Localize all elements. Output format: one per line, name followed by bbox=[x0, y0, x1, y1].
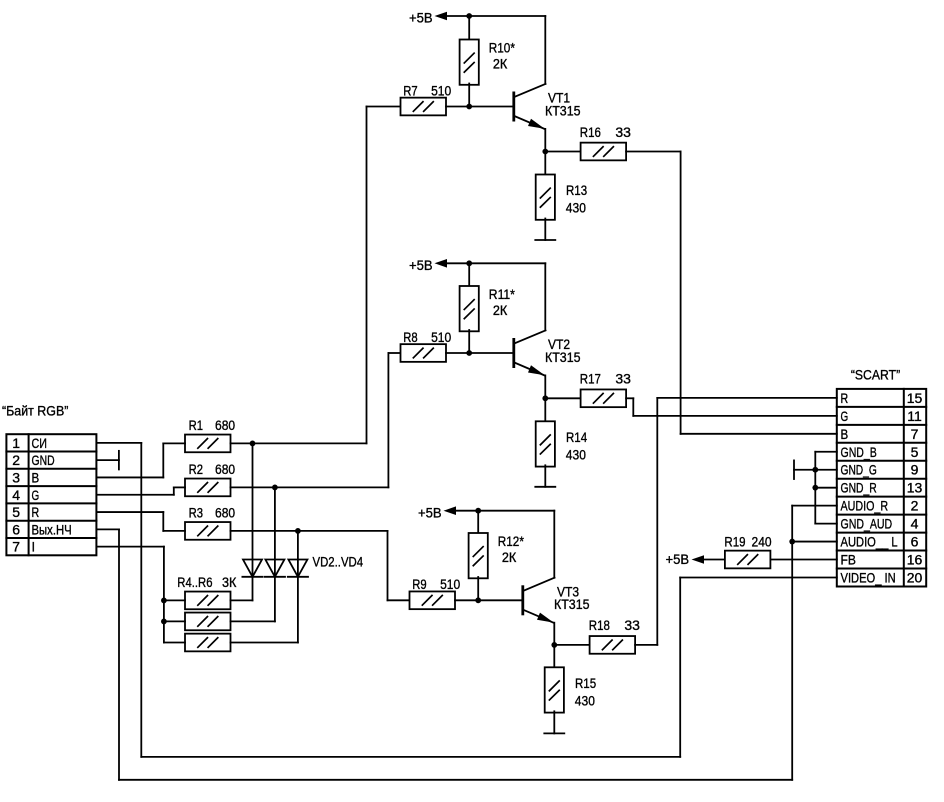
svg-text:GND_G: GND_G bbox=[841, 462, 877, 478]
svg-text:GND_B: GND_B bbox=[841, 444, 877, 460]
wire R1 output to R7 bbox=[231, 107, 401, 444]
svg-text:6: 6 bbox=[911, 534, 919, 550]
wire base of VT1 bbox=[446, 106, 514, 108]
svg-text:13: 13 bbox=[907, 480, 923, 496]
svg-text:7: 7 bbox=[911, 426, 919, 442]
svg-text:R18: R18 bbox=[589, 617, 610, 633]
svg-text:B: B bbox=[32, 469, 40, 485]
svg-text:430: 430 bbox=[566, 200, 586, 216]
transistor VT3 KT315 bbox=[523, 578, 555, 645]
svg-text:Вых.НЧ: Вых.НЧ bbox=[32, 521, 72, 537]
svg-text:GND_AUD: GND_AUD bbox=[841, 516, 893, 532]
svg-text:3: 3 bbox=[12, 469, 20, 485]
resistor R13 bbox=[536, 175, 555, 220]
label R7 510 bbox=[403, 82, 451, 98]
svg-text:11: 11 bbox=[907, 408, 922, 424]
label R15 430 bbox=[575, 675, 596, 709]
label R1 680 bbox=[189, 417, 236, 433]
resistor R19 bbox=[725, 551, 771, 569]
label R12* 2К bbox=[498, 533, 525, 565]
svg-text:33: 33 bbox=[624, 617, 640, 633]
resistor R12 bbox=[469, 533, 488, 578]
wire emitter node to R14 bbox=[544, 398, 546, 421]
svg-text:430: 430 bbox=[566, 446, 586, 462]
svg-text:“SCART”: “SCART” bbox=[851, 367, 901, 383]
wire R2 output to R8 bbox=[231, 353, 401, 487]
wire pin 7 I to R4..R6 bbox=[96, 547, 185, 643]
svg-text:R4..R6: R4..R6 bbox=[177, 574, 212, 590]
wire pin 2 GND bbox=[96, 459, 119, 461]
svg-text:2К: 2К bbox=[502, 549, 517, 565]
junction emitter node VT3 bbox=[551, 642, 557, 648]
resistor R10 bbox=[460, 40, 479, 85]
svg-text:I: I bbox=[32, 539, 36, 555]
wire emitter node to R18 bbox=[554, 644, 589, 646]
resistor R11 bbox=[460, 286, 479, 331]
resistor R15 bbox=[545, 667, 564, 712]
svg-text:R10*: R10* bbox=[489, 40, 516, 56]
junction audio L tap bbox=[789, 539, 795, 545]
junction base node VT2 bbox=[466, 350, 472, 356]
wire emitter node to R13 bbox=[544, 152, 546, 175]
svg-text:R7: R7 bbox=[403, 82, 418, 98]
power +5В (stage 1) bbox=[409, 10, 447, 26]
resistor R9 bbox=[410, 591, 456, 609]
svg-text:КТ315: КТ315 bbox=[554, 596, 590, 612]
svg-text:R: R bbox=[841, 390, 849, 406]
resistor R4 bbox=[185, 592, 231, 610]
diode VD3 bbox=[265, 560, 285, 577]
svg-text:AUDIO_R: AUDIO_R bbox=[841, 498, 889, 514]
svg-text:680: 680 bbox=[215, 417, 235, 433]
svg-text:1: 1 bbox=[12, 435, 20, 451]
resistor R6 bbox=[185, 634, 231, 652]
svg-text:4: 4 bbox=[12, 487, 20, 503]
ground (stage 1) bbox=[535, 239, 555, 241]
label R8 510 bbox=[403, 329, 451, 345]
svg-text:9: 9 bbox=[911, 462, 919, 478]
label R17 33 bbox=[580, 371, 631, 387]
wire pin 5 R to R3 bbox=[96, 512, 185, 531]
svg-text:3К: 3К bbox=[222, 574, 237, 590]
svg-text:AUDIO__ L: AUDIO__ L bbox=[841, 534, 898, 550]
svg-text:+5В: +5В bbox=[409, 10, 433, 26]
svg-text:VD2..VD4: VD2..VD4 bbox=[313, 554, 364, 570]
wire VD4 cathode to R6 bbox=[231, 577, 298, 643]
wire R15 to ground bbox=[553, 711, 555, 733]
svg-text:R3: R3 bbox=[189, 505, 204, 521]
svg-text:FB: FB bbox=[841, 552, 856, 568]
svg-text:5: 5 bbox=[12, 504, 20, 520]
svg-text:240: 240 bbox=[752, 534, 772, 550]
svg-text:680: 680 bbox=[215, 461, 235, 477]
wire R14 to ground bbox=[544, 465, 546, 487]
svg-text:680: 680 bbox=[215, 505, 235, 521]
junction I / R4 bbox=[161, 598, 167, 604]
wire +5В to R11 bbox=[468, 263, 470, 286]
junction node R1/VD2 bbox=[250, 441, 256, 447]
connector X2 "SCART" bbox=[837, 389, 926, 587]
ground terminal pin 2 GND bbox=[118, 451, 120, 470]
resistor R16 bbox=[581, 143, 627, 161]
svg-text:VIDEO_ IN: VIDEO_ IN bbox=[841, 569, 896, 585]
svg-text:КТ315: КТ315 bbox=[545, 102, 581, 118]
wire SCART ground bus bbox=[794, 452, 837, 524]
svg-text:2К: 2К bbox=[493, 56, 508, 72]
wire pin 3 B to R1 bbox=[96, 443, 185, 477]
junction emitter node VT1 bbox=[542, 149, 548, 155]
wire +5В to R10 bbox=[468, 16, 470, 40]
label R18 33 bbox=[589, 617, 640, 633]
svg-text:+5В: +5В bbox=[409, 257, 433, 273]
junction +5В / R11 bbox=[466, 260, 472, 266]
svg-text:R8: R8 bbox=[403, 329, 418, 345]
transistor VT2 KT315 bbox=[514, 330, 546, 398]
label VT1 KT315 bbox=[545, 90, 581, 119]
label R4..R6 3К bbox=[177, 574, 237, 590]
wire R16 to SCART B (pin 7) bbox=[626, 152, 837, 434]
resistor R1 bbox=[185, 435, 231, 453]
svg-text:6: 6 bbox=[12, 521, 20, 537]
wire VD3 anode bbox=[274, 487, 276, 576]
svg-text:G: G bbox=[841, 408, 849, 424]
svg-text:R: R bbox=[32, 504, 40, 520]
junction +5В / R10 bbox=[466, 13, 472, 19]
wire emitter node to R16 bbox=[545, 151, 580, 153]
wire VD2 anode bbox=[252, 443, 254, 576]
label R16 33 bbox=[580, 124, 631, 140]
svg-text:16: 16 bbox=[907, 552, 923, 568]
svg-text:КТ315: КТ315 bbox=[545, 349, 581, 365]
wire R13 to ground bbox=[544, 219, 546, 241]
wire base of VT2 bbox=[446, 352, 514, 354]
junction GND_R bus bbox=[812, 485, 818, 491]
svg-text:2: 2 bbox=[12, 452, 20, 468]
svg-text:R17: R17 bbox=[580, 371, 601, 387]
label R14 430 bbox=[566, 429, 587, 463]
svg-text:R15: R15 bbox=[575, 675, 596, 691]
wire R10 to base node bbox=[468, 84, 470, 107]
svg-text:+5В: +5В bbox=[666, 551, 690, 567]
wire R18 to SCART R (pin 15) bbox=[635, 398, 837, 645]
ground terminal SCART GND_G bbox=[793, 460, 795, 479]
label R11* 2К bbox=[489, 286, 516, 318]
label VT3 KT315 bbox=[554, 583, 590, 612]
svg-text:GND: GND bbox=[32, 452, 55, 468]
svg-text:2: 2 bbox=[911, 498, 919, 514]
svg-text:7: 7 bbox=[12, 539, 20, 555]
svg-text:+5В: +5В bbox=[418, 504, 442, 520]
svg-text:R1: R1 bbox=[189, 417, 204, 433]
label R10* 2К bbox=[489, 40, 516, 72]
wire R17 to SCART G (pin 11) bbox=[626, 398, 837, 416]
resistor R17 bbox=[581, 389, 627, 407]
svg-text:СИ: СИ bbox=[32, 435, 47, 451]
svg-text:15: 15 bbox=[907, 390, 923, 406]
wire VD2 cathode to R4 bbox=[231, 577, 253, 601]
svg-text:R11*: R11* bbox=[489, 286, 516, 302]
junction GND_G bus bbox=[812, 467, 818, 473]
svg-text:G: G bbox=[32, 487, 40, 503]
svg-text:R16: R16 bbox=[580, 124, 601, 140]
label R3 680 bbox=[189, 505, 236, 521]
junction +5В / R12 bbox=[475, 508, 481, 514]
svg-text:430: 430 bbox=[575, 692, 595, 708]
wire AUDIO L tap bbox=[792, 541, 837, 543]
diode VD4 bbox=[288, 560, 308, 577]
label R13 430 bbox=[566, 182, 587, 216]
junction base node VT3 bbox=[475, 597, 481, 603]
power +5В (R19) bbox=[666, 551, 705, 567]
wire pin 6 Вых.НЧ to audio bus bbox=[96, 506, 836, 780]
wire base of VT3 bbox=[455, 599, 523, 601]
ground (stage 2) bbox=[535, 486, 555, 488]
ground (stage 3) bbox=[544, 732, 564, 734]
label R19 240 bbox=[724, 534, 771, 550]
resistor R14 bbox=[536, 421, 555, 466]
junction base node VT1 bbox=[466, 104, 472, 110]
junction node R3/VD4 bbox=[295, 528, 301, 534]
svg-text:33: 33 bbox=[615, 371, 631, 387]
svg-text:510: 510 bbox=[431, 329, 451, 345]
svg-text:5: 5 bbox=[911, 444, 919, 460]
wire +5В rail (stage 1) bbox=[447, 16, 545, 84]
wire pin 4 G to R2 bbox=[96, 487, 185, 494]
wire R19 to SCART FB (pin 16) bbox=[770, 559, 836, 561]
wire pin 1 СИ to VIDEO_IN bus bbox=[96, 443, 836, 757]
wire +5В rail (stage 3) bbox=[456, 511, 554, 578]
svg-text:R2: R2 bbox=[189, 461, 204, 477]
svg-text:R12*: R12* bbox=[498, 533, 525, 549]
power +5В (stage 3) bbox=[418, 504, 456, 520]
label VT2 KT315 bbox=[545, 336, 581, 365]
svg-text:4: 4 bbox=[911, 516, 919, 532]
resistor R5 bbox=[185, 613, 231, 631]
junction node R2/VD3 bbox=[272, 485, 278, 491]
svg-text:R9: R9 bbox=[412, 576, 427, 592]
wire R11 to base node bbox=[468, 330, 470, 353]
wire +5В rail (stage 2) bbox=[447, 263, 545, 330]
svg-text:R14: R14 bbox=[566, 429, 587, 445]
wire emitter node to R17 bbox=[545, 397, 580, 399]
transistor VT1 KT315 bbox=[514, 84, 546, 152]
wire R3 output to R9 bbox=[231, 531, 410, 600]
power +5В (stage 2) bbox=[409, 257, 447, 273]
resistor R3 bbox=[185, 522, 231, 540]
svg-text:R13: R13 bbox=[566, 182, 587, 198]
junction emitter node VT2 bbox=[542, 395, 548, 401]
resistor R2 bbox=[185, 479, 231, 497]
svg-text:R19: R19 bbox=[724, 534, 745, 550]
svg-text:2К: 2К bbox=[493, 302, 508, 318]
svg-text:33: 33 bbox=[615, 124, 631, 140]
connector X1 "Байт RGB" bbox=[6, 434, 96, 555]
diode VD2 bbox=[242, 560, 262, 577]
junction I / R5 bbox=[161, 619, 167, 625]
svg-text:GND_R: GND_R bbox=[841, 480, 877, 496]
resistor R8 bbox=[401, 344, 447, 362]
svg-text:510: 510 bbox=[440, 576, 460, 592]
resistor R18 bbox=[590, 636, 636, 654]
wire R12 to base node bbox=[477, 577, 479, 600]
svg-text:510: 510 bbox=[431, 82, 451, 98]
wire VD4 anode bbox=[297, 531, 299, 577]
wire VD3 cathode to R5 bbox=[231, 577, 275, 622]
svg-text:B: B bbox=[841, 426, 849, 442]
svg-text:“Байт RGB”: “Байт RGB” bbox=[2, 403, 69, 419]
resistor R7 bbox=[401, 98, 447, 116]
svg-text:20: 20 bbox=[907, 569, 923, 585]
wire +5В to R19 bbox=[704, 559, 725, 561]
wire emitter node to R15 bbox=[553, 645, 555, 667]
wire +5В to R12 bbox=[477, 511, 479, 533]
label R9 510 bbox=[412, 576, 460, 592]
label R2 680 bbox=[189, 461, 236, 477]
